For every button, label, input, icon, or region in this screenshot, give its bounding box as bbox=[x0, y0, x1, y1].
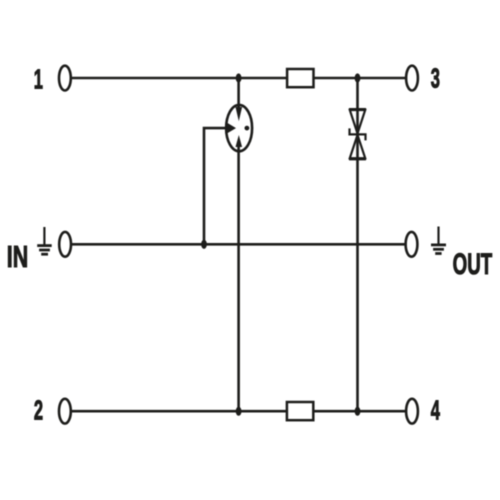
arrester internal dot electrode bbox=[245, 126, 250, 131]
wire vertical through arrester lower part down to bottom rail bbox=[237, 146, 240, 412]
wire top rail left segment bbox=[72, 77, 288, 80]
junction dot bottom rail at arrester branch bbox=[236, 407, 242, 416]
junction dot bottom rail at diode branch bbox=[355, 407, 361, 416]
suppressor diode V1 bottom cathode bar bbox=[349, 158, 366, 160]
svg-text:OUT: OUT bbox=[453, 247, 493, 281]
svg-text:IN: IN bbox=[7, 239, 28, 274]
ground symbol left bbox=[37, 227, 52, 254]
wire vertical through arrester upper part bbox=[237, 78, 240, 109]
junction dot middle rail at gate lead bbox=[201, 240, 207, 249]
wire top rail right segment bbox=[313, 77, 405, 80]
terminal 3 bbox=[406, 66, 418, 91]
suppressor diode V1 bottom triangle bbox=[350, 135, 365, 158]
svg-text:2: 2 bbox=[34, 394, 43, 426]
resistor R2 bottom bbox=[287, 402, 313, 420]
suppressor diode V1 top triangle bbox=[350, 110, 365, 134]
wire bottom rail left segment bbox=[72, 410, 288, 413]
suppressor diode V1 top cathode bar bbox=[349, 108, 366, 110]
arrester gate arrow bbox=[227, 123, 236, 133]
svg-text:1: 1 bbox=[34, 63, 43, 95]
terminal 4 bbox=[406, 399, 418, 424]
svg-text:3: 3 bbox=[431, 62, 440, 94]
resistor R1 top bbox=[287, 69, 313, 87]
suppressor diode V1 center zener bar bbox=[350, 128, 366, 140]
terminal IN bbox=[59, 232, 71, 257]
arrester top electrode arrow bbox=[236, 107, 243, 121]
junction dot top rail at diode branch bbox=[355, 73, 361, 82]
terminal 2 bbox=[59, 399, 71, 424]
wire middle rail IN to OUT bbox=[72, 243, 405, 246]
wire bottom rail right segment bbox=[313, 410, 405, 413]
wire vertical diode branch bbox=[356, 78, 359, 411]
svg-text:4: 4 bbox=[431, 394, 440, 426]
junction dot top rail at arrester branch bbox=[236, 73, 242, 82]
wire L-shaped arrester gate lead bbox=[204, 128, 229, 244]
gas discharge arrester F1 body bbox=[226, 105, 252, 151]
ground symbol right bbox=[431, 227, 446, 254]
terminal OUT bbox=[406, 232, 418, 257]
terminal 1 bbox=[59, 66, 71, 91]
arrester bottom electrode arrow bbox=[236, 135, 243, 147]
